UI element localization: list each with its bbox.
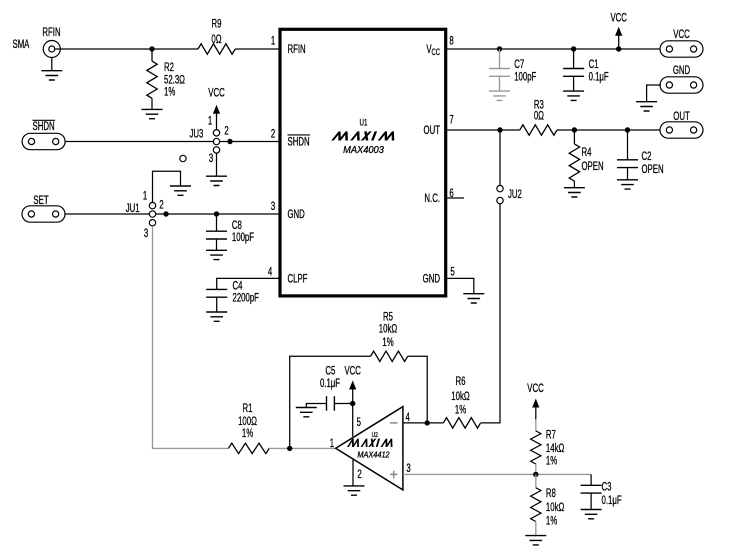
wire SET pad to U1 pin3	[65, 213, 280, 215]
wire feedback loop left	[290, 356, 371, 448]
label U1 pin2 SHDN	[288, 135, 311, 149]
svg-text:SHDN: SHDN	[33, 120, 55, 133]
svg-text:SHDN: SHDN	[288, 136, 310, 149]
capacitor C3	[581, 485, 602, 493]
svg-text:GND: GND	[673, 65, 690, 78]
node JU2 tap	[497, 127, 502, 132]
svg-text:JU1: JU1	[126, 202, 140, 215]
wire C4 bottom lead	[216, 297, 218, 312]
capacitor C4	[206, 289, 227, 297]
svg-text:C3: C3	[602, 481, 612, 494]
capacitor C5	[327, 396, 335, 411]
resistor R5	[371, 351, 408, 361]
ground JU3	[206, 176, 227, 185]
ground JU1 pin1	[170, 186, 191, 195]
ground C7	[489, 91, 510, 100]
svg-text:JU3: JU3	[190, 128, 204, 141]
svg-text:U2: U2	[372, 431, 379, 439]
svg-text:3: 3	[209, 153, 214, 166]
svg-text:1: 1	[271, 35, 276, 48]
svg-text:3: 3	[271, 201, 276, 214]
svg-text:VCC: VCC	[344, 365, 360, 378]
svg-text:VCC: VCC	[527, 382, 543, 395]
svg-text:10kΩ: 10kΩ	[546, 502, 565, 515]
svg-text:VCC: VCC	[673, 29, 689, 42]
wire R4 top lead	[573, 130, 575, 144]
ground SMA	[41, 71, 62, 80]
svg-text:SET: SET	[33, 194, 48, 207]
wire GND pad to ground	[647, 85, 661, 102]
wire JU2 lower to R6	[481, 204, 500, 423]
svg-text:C2: C2	[642, 151, 652, 164]
svg-text:CLPF: CLPF	[288, 273, 308, 286]
wire R6 to op-amp pin4	[403, 422, 444, 424]
ground C3	[581, 510, 602, 519]
svg-text:0.1μF: 0.1μF	[589, 71, 609, 84]
svg-text:1%: 1%	[455, 404, 466, 417]
wire C3 bottom lead	[590, 493, 592, 509]
svg-text:0Ω: 0Ω	[211, 34, 221, 47]
svg-text:U1: U1	[360, 117, 368, 128]
capacitor C7	[489, 69, 510, 77]
pad SHDN	[22, 133, 65, 149]
svg-text:100pF: 100pF	[232, 231, 254, 244]
capacitor C8	[206, 231, 227, 239]
wire C2 top lead	[627, 130, 629, 160]
svg-text:8: 8	[449, 35, 454, 48]
wire C8 bottom lead	[216, 239, 218, 250]
node feedback pin4	[425, 420, 430, 425]
svg-text:52.3Ω: 52.3Ω	[164, 74, 185, 87]
node C8 tap	[214, 211, 219, 216]
svg-text:2: 2	[224, 125, 229, 138]
resistor R6	[443, 418, 480, 428]
wire JU1 pin1 to ground bracket	[153, 171, 181, 202]
svg-text:OPEN: OPEN	[642, 164, 664, 177]
resistor R1	[228, 443, 269, 453]
pad OUT	[660, 122, 703, 138]
wire SMA ground lead	[51, 58, 53, 71]
svg-text:2: 2	[159, 199, 164, 212]
svg-text:SMA: SMA	[13, 38, 30, 51]
logo MAXIM U2	[347, 439, 395, 447]
resistor R4	[569, 144, 579, 181]
svg-text:R5: R5	[383, 311, 393, 324]
svg-text:1%: 1%	[382, 337, 393, 350]
wire R4 bottom lead	[573, 181, 575, 188]
svg-text:N.C.: N.C.	[424, 193, 440, 206]
wire R2 top lead	[151, 49, 153, 61]
ground C2	[617, 180, 638, 189]
svg-text:R2: R2	[164, 62, 174, 75]
svg-text:C1: C1	[589, 59, 599, 72]
svg-text:1: 1	[330, 438, 335, 451]
power VCC arrow R7	[532, 399, 539, 421]
wire JU2 upper	[499, 130, 501, 185]
wire U1 pin5 to ground	[446, 278, 474, 293]
wire R8 top lead	[535, 474, 537, 487]
svg-text:R8: R8	[546, 487, 556, 500]
svg-text:OUT: OUT	[673, 110, 689, 123]
svg-text:7: 7	[449, 114, 454, 127]
svg-text:0.1μF: 0.1μF	[320, 378, 340, 391]
svg-text:GND: GND	[288, 209, 305, 222]
svg-text:1%: 1%	[164, 86, 175, 99]
wire U2 pin3 to C3	[403, 473, 591, 475]
svg-text:14kΩ: 14kΩ	[546, 442, 565, 455]
ground C1	[563, 91, 584, 100]
wire SET long run to R1	[153, 226, 229, 448]
wire R9 to U1 pin1	[235, 48, 280, 50]
svg-text:VCC: VCC	[610, 12, 626, 25]
capacitor C1	[563, 69, 584, 77]
svg-text:3: 3	[406, 462, 411, 475]
jumper JU3 pin2	[213, 138, 219, 144]
wire C1 top lead	[573, 49, 575, 69]
node C7 tap	[497, 46, 502, 51]
svg-text:10kΩ: 10kΩ	[379, 323, 398, 336]
wire U1 pin6 NC stub	[446, 197, 464, 199]
node C5 VCC junction	[350, 401, 355, 406]
svg-text:5: 5	[357, 416, 362, 429]
svg-text:R9: R9	[212, 18, 222, 31]
svg-text:1: 1	[208, 115, 213, 128]
wire VCC rail pin8	[446, 48, 660, 50]
op-amp U2 triangle	[336, 407, 403, 490]
ground C8	[206, 250, 227, 259]
svg-text:100pF: 100pF	[514, 71, 536, 84]
wire C5 left lead	[306, 404, 326, 408]
node JU3 pin2 junction	[227, 139, 232, 144]
svg-text:R1: R1	[243, 403, 253, 416]
jumper JU3 pin3	[213, 147, 219, 153]
pad GND	[660, 77, 703, 93]
ground C4	[206, 312, 227, 321]
jumper JU1 pin3	[149, 220, 155, 226]
jumper JU2 pin1	[497, 185, 503, 191]
wire RFIN to R9	[55, 48, 198, 50]
wire U1 pin7 to R3	[446, 129, 520, 131]
ground U2 pin2	[344, 486, 365, 495]
wire U1 pin4 to C4	[217, 278, 280, 289]
svg-text:0.1μF: 0.1μF	[602, 494, 622, 507]
svg-text:OUT: OUT	[424, 125, 440, 138]
node R7 R8 junction	[533, 472, 538, 477]
svg-text:GND: GND	[423, 273, 440, 286]
svg-text:R4: R4	[582, 147, 592, 160]
op-amp plus input	[390, 471, 398, 479]
node R4 tap	[572, 127, 577, 132]
wire U2 pin2 to ground	[352, 459, 354, 486]
wire R2 bottom lead	[151, 98, 153, 109]
wire C3 top lead	[590, 474, 592, 485]
svg-text:4: 4	[268, 266, 273, 279]
resistor R7	[531, 431, 541, 464]
jumper JU3 pin1	[213, 130, 219, 136]
power VCC arrow C5	[349, 381, 356, 404]
pad SET	[22, 206, 65, 222]
wire R7 bottom lead	[535, 464, 537, 475]
svg-text:0Ω: 0Ω	[534, 110, 544, 123]
wire C7 bottom lead	[499, 76, 501, 91]
node C2 tap	[625, 127, 630, 132]
svg-text:2200pF: 2200pF	[233, 292, 259, 305]
resistor R3	[520, 125, 557, 135]
wire feedback loop right	[408, 356, 428, 423]
wire R7 top lead	[535, 419, 537, 431]
wire U2 pin5 supply	[352, 404, 354, 437]
capacitor C2	[617, 160, 638, 168]
wire SHDN pad to U1 pin2	[65, 141, 280, 143]
test point open circle	[180, 155, 186, 161]
svg-text:MAX4412: MAX4412	[357, 450, 390, 459]
ground R8	[525, 536, 546, 545]
node R1 feedback junction	[287, 446, 292, 451]
svg-text:RFIN: RFIN	[288, 44, 306, 57]
SMA connector	[43, 41, 60, 58]
wire R3 to OUT pad	[557, 129, 660, 131]
svg-text:C7: C7	[514, 59, 524, 72]
wire JU3 pin3 to ground	[216, 153, 218, 176]
node JU1 pin2 junction	[163, 211, 168, 216]
resistor R9	[198, 44, 235, 54]
power VCC arrow JU3	[213, 105, 220, 130]
wire R8 bottom lead	[535, 521, 537, 535]
pad VCC	[660, 41, 703, 57]
svg-text:R6: R6	[456, 376, 466, 389]
ground R4	[564, 188, 585, 197]
svg-text:C5: C5	[325, 365, 335, 378]
ground R2	[142, 109, 163, 118]
jumper JU1 pin2	[149, 211, 155, 217]
node C1 tap	[571, 46, 576, 51]
jumper JU1 pin1	[149, 202, 155, 208]
node VCC arrow tap	[616, 46, 621, 51]
wire R1 to op-amp output	[269, 447, 336, 449]
svg-text:VCC: VCC	[208, 87, 224, 100]
svg-text:MAX4003: MAX4003	[343, 145, 384, 156]
power VCC arrow top	[615, 27, 622, 49]
wire C7 top lead	[499, 49, 501, 69]
op-amp minus input	[390, 422, 398, 424]
svg-text:1: 1	[143, 190, 148, 203]
wire C8 top lead	[216, 214, 218, 231]
svg-text:3: 3	[144, 228, 149, 241]
svg-text:5: 5	[450, 266, 455, 279]
svg-text:JU2: JU2	[508, 189, 522, 202]
ground C5	[296, 408, 317, 417]
logo MAXIM U1	[331, 131, 398, 140]
wire C5 right lead	[334, 403, 352, 405]
svg-text:1%: 1%	[546, 515, 557, 528]
svg-text:2: 2	[271, 128, 276, 141]
label SHDN port	[33, 120, 56, 133]
wire C1 bottom lead	[573, 76, 575, 91]
resistor R8	[531, 488, 541, 522]
resistor R2	[147, 61, 157, 98]
node R2 tap	[149, 46, 154, 51]
svg-text:1%: 1%	[242, 427, 253, 440]
svg-text:2: 2	[357, 469, 362, 482]
svg-text:10kΩ: 10kΩ	[451, 390, 470, 403]
svg-text:1%: 1%	[546, 455, 557, 468]
svg-text:RFIN: RFIN	[42, 27, 60, 40]
jumper JU2 pin2	[497, 197, 503, 203]
svg-text:OPEN: OPEN	[582, 161, 604, 174]
wire C2 bottom lead	[627, 168, 629, 180]
ground GND pad	[636, 102, 657, 111]
svg-text:4: 4	[406, 411, 411, 424]
ground U1 pin5	[463, 294, 484, 303]
svg-text:R7: R7	[546, 429, 556, 442]
op-amp U1 box	[280, 29, 446, 296]
